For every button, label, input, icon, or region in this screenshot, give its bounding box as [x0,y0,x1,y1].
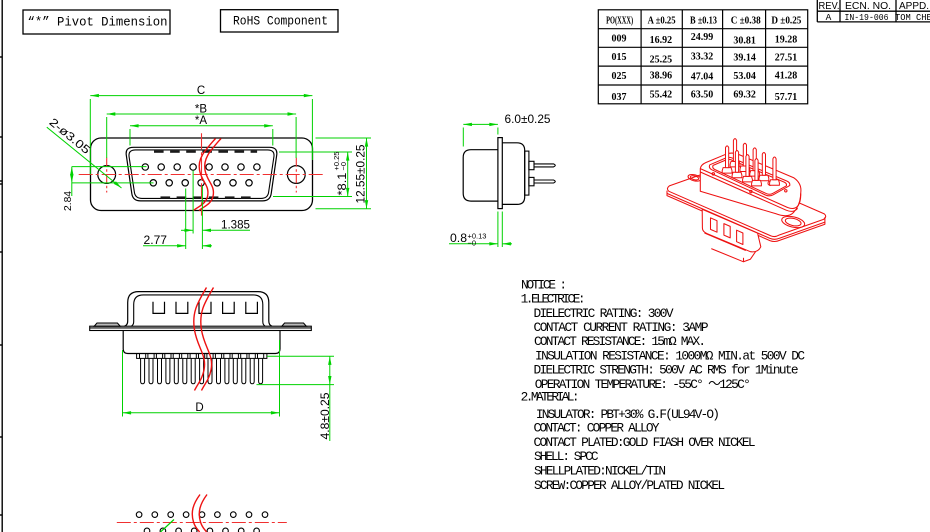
svg-text:4.8±0.25: 4.8±0.25 [320,393,332,440]
svg-text:24.99: 24.99 [691,32,714,43]
table row 015 [612,52,798,66]
3d near row pins [722,168,732,174]
svg-text:47.04: 47.04 [691,72,714,83]
bottom view pin strip [137,354,267,359]
red horizontal centerline front view [79,174,324,176]
bottom view shell inner [131,295,265,326]
dim 0.8 [449,212,512,248]
svg-text:D: D [195,402,203,414]
table row 025 [612,71,798,83]
red vertical centerline middle [201,133,203,215]
3d shell lip line 2 [700,172,797,211]
sheet left border [0,0,2,532]
3d lower body bottom edge [705,233,746,251]
top pin row [142,164,260,170]
pin layout red break right [199,495,207,532]
svg-text:REV.: REV. [819,1,840,12]
dim 2-diam3.05 leader [47,127,122,188]
flange end tabs [94,323,120,326]
bottom view shell outline [124,292,272,327]
svg-text:APPD.: APPD. [899,1,929,12]
red break line bottom view right [201,288,214,391]
svg-text:NOTICE :: NOTICE : [521,278,567,293]
svg-text:16.92: 16.92 [650,35,673,46]
svg-text:SHELL: SPCC: SHELL: SPCC [534,449,599,464]
side view front shell body [463,150,498,201]
svg-text:“*” Pivot Dimension: “*” Pivot Dimension [28,15,168,30]
pin layout red centerline [117,522,287,524]
svg-text:−0: −0 [339,162,348,171]
pin layout green leader [161,520,175,532]
dim 6.0 [463,124,498,146]
svg-text:A ±0.25: A ±0.25 [648,16,676,27]
3d insulator face dots [712,173,714,175]
svg-text:SCREW:COPPER ALLOY/PLATED NICK: SCREW:COPPER ALLOY/PLATED NICKEL [534,478,725,493]
front view flange plate [91,138,313,211]
svg-text:TOM CHEN: TOM CHEN [895,12,930,23]
svg-text:2-ø3.05: 2-ø3.05 [47,116,92,156]
svg-text:2.77: 2.77 [144,235,168,247]
3d lower body window 1 [711,218,718,232]
svg-text:DIELECTRIC RATING: 300V: DIELECTRIC RATING: 300V [534,306,674,321]
svg-text:38.96: 38.96 [650,71,673,82]
svg-text:57.71: 57.71 [775,92,798,103]
svg-text:IN-19-006: IN-19-006 [845,12,889,23]
front view D-shell inner [129,150,274,199]
dim 1.385 [181,171,250,234]
dim 2.77 [143,189,212,250]
svg-text:A: A [826,12,832,23]
svg-text:6.0±0.25: 6.0±0.25 [505,114,551,126]
side view flange plate [498,138,502,209]
svg-text:39.14: 39.14 [733,53,756,64]
svg-text:D ±0.25: D ±0.25 [771,16,801,27]
svg-text:2.MATERIAL:: 2.MATERIAL: [521,390,580,405]
dim *A [130,126,273,146]
svg-text:RoHS Component: RoHS Component [233,14,328,29]
svg-text:53.04: 53.04 [733,71,756,82]
3d lower body [702,209,761,252]
svg-text:CONTACT PLATED:GOLD FIASH OVER: CONTACT PLATED:GOLD FIASH OVER NICKEL [534,435,756,450]
rev table top right [817,0,930,22]
side view bottom pin [534,180,555,183]
svg-text:ECN. NO.: ECN. NO. [845,1,891,12]
pin layout top row [136,512,268,518]
3d insulator top face [709,157,789,195]
red vertical centerline right hole [295,158,297,193]
3d left ear hole [687,173,701,182]
svg-text:25.25: 25.25 [650,55,673,66]
svg-text:015: 015 [612,52,627,63]
svg-text:*B: *B [195,103,207,115]
dim 8.1 [273,152,352,197]
svg-text:009: 009 [612,34,627,45]
svg-text:1.385: 1.385 [221,219,250,231]
svg-text:27.51: 27.51 [775,53,798,64]
dim C [90,96,312,175]
red break line front view left [194,139,216,211]
svg-text:*8.1: *8.1 [337,173,349,196]
svg-text:55.42: 55.42 [650,90,673,101]
3d plate thickness [667,191,825,240]
bottom view U notches [153,302,257,314]
dimension data table [598,10,807,104]
red break line front view right [199,139,221,211]
red vertical centerline left hole [106,158,108,193]
RoHS component box [221,10,339,32]
bottom view pins [140,354,264,384]
table row 037 [612,90,798,104]
pin layout red break left [192,495,200,532]
side view rear insulator [502,143,524,205]
3d shell silhouette [700,153,801,216]
3d lower body window 3 [737,230,743,244]
svg-text:41.28: 41.28 [775,71,798,82]
3d pins [722,139,779,186]
dim 12.55 [316,138,372,209]
svg-text:C ±0.38: C ±0.38 [731,16,761,27]
3d lower body window 2 [724,224,730,238]
svg-text:19.28: 19.28 [775,35,798,46]
pin layout bottom row [144,528,259,532]
svg-text:037: 037 [612,92,627,103]
shell top ground tabs [154,151,257,199]
svg-text:INSULATION RESISTANCE: 1000MΩ: INSULATION RESISTANCE: 1000MΩ MIN.at 500… [535,348,805,363]
svg-text:33.32: 33.32 [691,52,714,63]
svg-text:−0: −0 [468,238,477,247]
svg-text:12.55±0.25: 12.55±0.25 [356,145,368,204]
svg-text:SHELLPLATED:NICKEL/TIN: SHELLPLATED:NICKEL/TIN [534,464,666,479]
side view pin base bottom [529,177,534,185]
svg-text:0.8: 0.8 [450,233,467,245]
svg-text:025: 025 [612,71,627,82]
3d flange plate top face [667,169,825,237]
svg-text:1.ELECTRICE:: 1.ELECTRICE: [521,292,586,307]
dim *B [107,114,296,158]
bottom pin row [150,180,252,186]
svg-text:DIELECTRIC STRENGTH: 500V AC R: DIELECTRIC STRENGTH: 500V AC RMS for 1Mi… [534,363,799,378]
svg-text:CONTACT: COPPER ALLOY: CONTACT: COPPER ALLOY [534,421,660,436]
bottom view lower insulator body [123,331,280,354]
shell bottom ground tabs [161,196,171,198]
front view left mounting hole [98,166,116,184]
bottom view flange bar [90,323,312,331]
svg-text:2.84: 2.84 [62,191,74,211]
svg-text:69.32: 69.32 [733,90,756,101]
svg-text:63.50: 63.50 [691,90,714,101]
svg-text:30.81: 30.81 [733,36,756,47]
side view pin base top [529,161,534,169]
table row 009 [612,32,798,47]
dim D [123,340,280,417]
3d insulator inner line [713,159,787,194]
dim 2.84 [72,167,154,196]
svg-text:B ±0.13: B ±0.13 [690,16,717,27]
side view insulator step [525,151,529,195]
dim 4.8 [257,356,335,441]
table header text [606,16,801,27]
svg-text:CONTACT RESISTANCE: 15mΩ MAX.: CONTACT RESISTANCE: 15mΩ MAX. [534,334,706,349]
front view right mounting hole [287,166,305,184]
front view D-shell outer [126,147,277,201]
side view top pin [534,164,555,167]
svg-text:PO(XXX): PO(XXX) [606,16,633,27]
svg-text:*A: *A [195,115,207,127]
svg-text:C: C [197,85,205,97]
3d shell lip line 1 [700,169,800,209]
3d right ear holes [781,214,806,229]
red break line bottom view left [194,288,207,391]
pivot dimension note box [23,10,170,34]
